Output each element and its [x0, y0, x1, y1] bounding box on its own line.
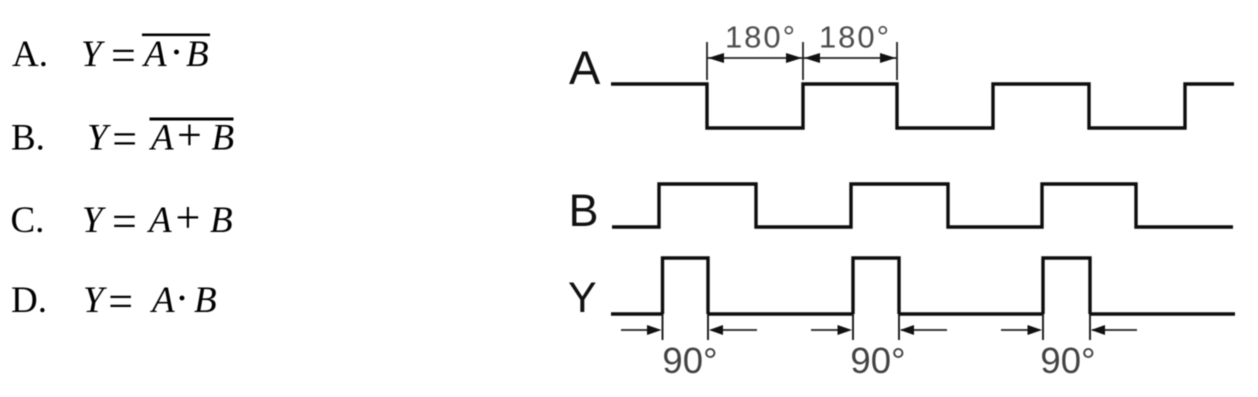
- svg-text:A.: A.: [12, 34, 48, 75]
- waveform Y baseline segment 1: [611, 312, 663, 315]
- svg-text:C.: C.: [11, 200, 45, 241]
- option C equation Y = A+B: [82, 193, 233, 246]
- svg-text:B: B: [186, 34, 209, 75]
- waveform Y pulse 2: [853, 258, 899, 314]
- svg-text:B.: B.: [11, 118, 45, 159]
- dimension arrowheads 180 right span: [804, 53, 896, 63]
- svg-text:Y: Y: [568, 274, 597, 322]
- pulse 3 extension lines: [1043, 314, 1090, 340]
- svg-text:180°: 180°: [819, 20, 891, 55]
- waveform Y baseline segment 3: [899, 312, 1043, 315]
- svg-text:A: A: [148, 118, 174, 159]
- waveform Y baseline segment 2: [708, 312, 853, 315]
- waveform Y pulse 1: [663, 258, 709, 314]
- waveform B: [612, 184, 1233, 227]
- dimension extension line at rise edge: [802, 42, 804, 80]
- dimension line 180 spans: [707, 57, 897, 59]
- waveform Y pulse 3: [1043, 258, 1090, 314]
- svg-text:B: B: [210, 200, 233, 241]
- dimension extension line at first fall edge: [706, 42, 708, 80]
- option B equation Y = overline(A+B): [87, 111, 234, 164]
- svg-text:B: B: [212, 118, 235, 159]
- svg-text:=: =: [112, 115, 137, 164]
- svg-text:Y: Y: [82, 200, 106, 241]
- pulse 2 extension lines: [853, 314, 899, 340]
- option D equation Y = A·B: [83, 276, 217, 326]
- svg-text:+: +: [176, 193, 201, 242]
- dimension extension line at second fall edge: [896, 42, 898, 80]
- waveform Y baseline segment 4: [1090, 312, 1235, 315]
- svg-text:A: A: [569, 41, 601, 94]
- svg-text:Y: Y: [87, 118, 111, 159]
- waveform A: [611, 84, 1234, 128]
- svg-text:B: B: [569, 185, 599, 236]
- svg-text:Y: Y: [83, 280, 107, 321]
- svg-text:·: ·: [170, 30, 184, 76]
- option A overline: [142, 34, 210, 37]
- svg-text:B: B: [194, 280, 217, 321]
- svg-text:Y: Y: [81, 34, 105, 75]
- svg-text:A: A: [149, 280, 175, 321]
- svg-text:180°: 180°: [725, 20, 797, 55]
- option A equation Y = overline(A·B): [81, 30, 209, 80]
- dimension arrows 90 pulse 2: [811, 325, 947, 335]
- svg-text:A: A: [146, 200, 172, 241]
- svg-text:90°: 90°: [850, 340, 905, 381]
- svg-text:90°: 90°: [1040, 340, 1095, 381]
- svg-text:A: A: [141, 34, 167, 75]
- pulse 1 extension lines: [663, 314, 709, 340]
- svg-text:=: =: [108, 277, 133, 326]
- svg-text:=: =: [111, 31, 136, 80]
- svg-text:90°: 90°: [662, 340, 717, 381]
- dimension arrows 90 pulse 3: [1001, 325, 1137, 335]
- svg-text:=: =: [112, 197, 137, 246]
- dimension arrows 90 pulse 1: [621, 325, 757, 335]
- svg-text:·: ·: [175, 276, 189, 322]
- dimension arrowheads 180 left span: [708, 53, 802, 63]
- option B overline: [150, 118, 234, 121]
- svg-text:D.: D.: [11, 280, 47, 321]
